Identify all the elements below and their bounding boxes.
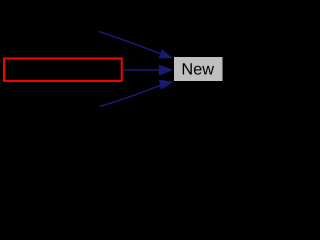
wire: bottom edge line into node New xyxy=(100,85,161,106)
node New (filled grey box) xyxy=(174,57,223,81)
arrowhead of top edge xyxy=(159,49,173,58)
arrowhead of middle edge xyxy=(159,65,174,76)
arrowhead of bottom edge xyxy=(159,80,174,90)
label New xyxy=(183,63,214,74)
wire: top edge line into node New xyxy=(99,32,160,54)
node: red-bordered box (unlabeled caller node) xyxy=(4,58,122,81)
wire: middle edge line from red box to node New xyxy=(123,69,159,71)
